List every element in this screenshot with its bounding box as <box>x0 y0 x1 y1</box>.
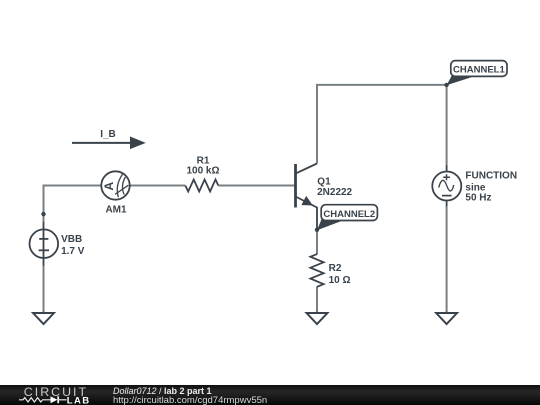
svg-text:10 Ω: 10 Ω <box>329 275 351 286</box>
wire ammeter to R1 <box>130 185 186 187</box>
CHANNEL1 flag <box>447 61 507 86</box>
transistor Q1 <box>295 164 318 231</box>
svg-text:AM1: AM1 <box>105 205 127 216</box>
wire function generator to ground <box>446 206 448 312</box>
footer title line <box>113 387 212 396</box>
logo diode <box>51 396 58 403</box>
current arrow I_B <box>72 137 144 148</box>
wire R2 to ground <box>316 287 318 312</box>
ground (function generator) <box>436 312 457 324</box>
svg-text:R2: R2 <box>329 263 342 274</box>
logo resistor zigzag <box>19 398 51 402</box>
svg-text:sine: sine <box>465 182 485 193</box>
svg-text:1.7 V: 1.7 V <box>61 246 85 257</box>
svg-text:CHANNEL1: CHANNEL1 <box>453 65 505 76</box>
node dot (VBB branch) <box>41 212 45 216</box>
svg-text:50 Hz: 50 Hz <box>465 193 491 204</box>
svg-text:100 kΩ: 100 kΩ <box>186 166 219 177</box>
wire VBB corner to ammeter <box>44 186 102 223</box>
CircuitLab logo <box>0 385 110 405</box>
wire top rail node to function generator <box>446 85 448 166</box>
svg-text:I_B: I_B <box>100 129 116 140</box>
resistor R2 <box>310 254 323 287</box>
footer url line <box>113 396 267 405</box>
svg-text:CHANNEL2: CHANNEL2 <box>323 209 375 220</box>
ground (VBB) <box>33 312 54 324</box>
svg-text:A: A <box>102 182 116 191</box>
wire CHANNEL2 node to R2 <box>316 230 318 255</box>
svg-text:2N2222: 2N2222 <box>317 187 352 198</box>
svg-text:LAB: LAB <box>67 395 91 405</box>
wire Q1 collector to top rail <box>317 85 447 164</box>
wire R1 to Q1 base <box>218 185 294 187</box>
ammeter AM1 <box>101 171 129 199</box>
wire VBB to ground <box>43 266 45 313</box>
voltage source VBB <box>30 222 59 266</box>
resistor R1 <box>185 180 218 192</box>
footer bar <box>0 385 540 405</box>
svg-text:VBB: VBB <box>61 234 82 245</box>
CHANNEL2 flag <box>317 205 377 231</box>
svg-text:Q1: Q1 <box>317 176 331 187</box>
node dot (CHANNEL1 junction) <box>444 83 448 87</box>
svg-text:FUNCTION: FUNCTION <box>465 170 517 181</box>
ground (emitter branch) <box>307 312 328 324</box>
function generator V1 <box>432 166 461 207</box>
node dot (CHANNEL2 junction) <box>315 228 319 232</box>
